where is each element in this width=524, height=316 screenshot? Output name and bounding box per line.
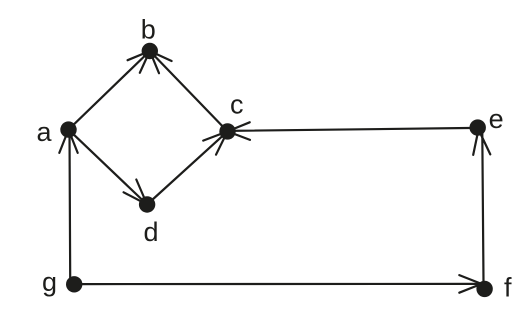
svg-text:g: g [42,267,57,297]
wire edge f->e [473,130,490,283]
svg-text:b: b [141,15,156,45]
node d [139,196,159,247]
wire edge g->f [78,275,482,293]
node c [219,90,243,140]
wire edge c->b [150,51,228,131]
svg-text:d: d [144,217,159,247]
svg-text:a: a [37,117,53,147]
node g [42,267,82,297]
svg-text:c: c [230,90,244,120]
node e [470,104,504,136]
wire edge a->b [69,51,150,130]
wire edge d->c [147,131,227,204]
node a [37,117,77,147]
node b [141,15,158,60]
wire edge g->a [59,130,77,278]
wire edge e->c [228,122,478,140]
node f [476,273,512,303]
wire edge a->d [69,130,148,205]
svg-text:f: f [504,273,512,303]
svg-text:e: e [489,104,504,134]
